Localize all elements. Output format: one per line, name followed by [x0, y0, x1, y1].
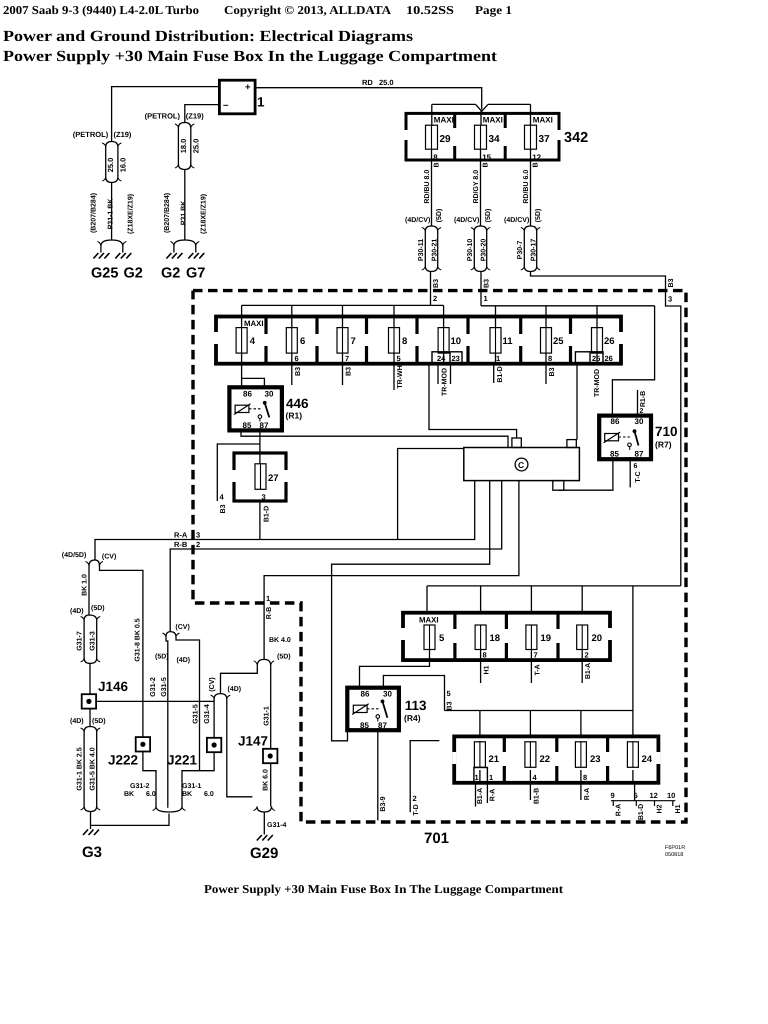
- wire f20 feed: [581, 586, 583, 613]
- pin 5 113: [447, 689, 451, 698]
- svg-text:B3: B3: [220, 504, 227, 513]
- label (5D) 2: [534, 209, 542, 223]
- svg-text:85: 85: [360, 721, 369, 730]
- svg-text:RD/BU 8.0: RD/BU 8.0: [423, 170, 431, 204]
- row2 inner wires: [430, 649, 583, 660]
- svg-text:7: 7: [534, 651, 538, 660]
- svg-text:(R4): (R4): [404, 713, 421, 723]
- pin 2 RB: [196, 540, 200, 549]
- label R1-B: [640, 391, 647, 407]
- svg-text:G31-4: G31-4: [204, 704, 211, 724]
- label (4D) b: [70, 717, 84, 725]
- pin 15 of 342: [482, 153, 491, 162]
- svg-text:86: 86: [243, 390, 252, 399]
- wire bus drop f10: [443, 305, 445, 328]
- wire to J146: [89, 663, 91, 694]
- bus row3 feed: [445, 710, 633, 712]
- label BK 6.0 e: [263, 769, 270, 791]
- fuse 37: [525, 116, 553, 150]
- splice pair fork 0: [422, 226, 441, 231]
- svg-text:2: 2: [413, 794, 417, 803]
- label G31-1 BK 6.0: [182, 783, 214, 798]
- svg-text:P31 BK: P31 BK: [181, 201, 188, 226]
- fuse row3 outline: [452, 736, 660, 782]
- svg-text:710: 710: [655, 424, 678, 439]
- relay 113 coil: [352, 704, 369, 715]
- center box symbol: [515, 458, 528, 471]
- svg-text:MAXI: MAXI: [419, 616, 439, 625]
- svg-text:25: 25: [592, 354, 600, 363]
- wire L4 line: [332, 481, 490, 741]
- label G31-5 c: [161, 677, 168, 697]
- label G31-5 d: [193, 704, 200, 724]
- label (5D) a: [91, 604, 105, 612]
- svg-text:BK: BK: [182, 791, 192, 798]
- wire bus drop f8: [393, 305, 395, 328]
- svg-text:1: 1: [475, 773, 479, 782]
- svg-text:R-A: R-A: [584, 788, 591, 800]
- svg-text:B3: B3: [484, 279, 491, 288]
- svg-text:(R7): (R7): [655, 440, 672, 450]
- center box tab bottom: [553, 481, 564, 491]
- wire T-D: [410, 741, 439, 813]
- svg-text:10.52SS: 10.52SS: [406, 3, 454, 17]
- svg-text:P30-7: P30-7: [517, 241, 524, 260]
- subbox pins 24 23: [432, 352, 462, 364]
- svg-text:B3: B3: [295, 367, 302, 376]
- svg-text:H1: H1: [675, 804, 682, 813]
- wire J222 down: [143, 752, 156, 807]
- wire G3 stem: [90, 812, 92, 830]
- svg-text:2: 2: [585, 651, 589, 660]
- svg-text:G2: G2: [161, 266, 180, 282]
- svg-text:16.0: 16.0: [118, 158, 127, 173]
- svg-text:8: 8: [548, 354, 552, 363]
- stub B3 under fuse7: [342, 364, 344, 385]
- pin 2 TD: [413, 794, 417, 803]
- wire R-A line: [95, 481, 475, 560]
- stub B1-A: [581, 660, 583, 683]
- label B1-D comb: [638, 804, 645, 820]
- wire battery negative to G2/G7 chain: [185, 105, 220, 123]
- svg-text:6: 6: [300, 336, 305, 347]
- label T-C: [635, 471, 642, 482]
- center box tab1: [512, 438, 521, 448]
- svg-text:G31-2: G31-2: [150, 677, 157, 697]
- connector J221: [207, 738, 221, 752]
- fuse 27: [255, 463, 279, 490]
- wire J146 down: [89, 709, 91, 727]
- wire to G25: [100, 246, 102, 253]
- comb line: [611, 800, 675, 802]
- stub B1-D under fuse11: [493, 364, 495, 383]
- pin 4 fuse27: [220, 493, 225, 502]
- wire bus drop f11: [495, 306, 497, 328]
- svg-text:10: 10: [667, 791, 675, 800]
- svg-text:(Z18XE/Z19): (Z18XE/Z19): [127, 194, 135, 234]
- svg-text:342: 342: [564, 130, 588, 146]
- wire fuse27 B1-D down: [259, 501, 261, 540]
- ground G3: [82, 830, 102, 862]
- label T-D: [413, 804, 420, 815]
- svg-text:86: 86: [611, 417, 620, 426]
- wire pair right 0: [437, 231, 439, 266]
- fuse 19 lower: [526, 625, 551, 651]
- stub B3 under fuse6: [291, 364, 293, 385]
- pin 3 dashedbox: [668, 295, 672, 304]
- svg-text:G31-5: G31-5: [161, 677, 168, 697]
- svg-text:B3: B3: [346, 367, 353, 376]
- wire pin2 to left bus: [430, 291, 432, 306]
- label P30-20: [481, 239, 488, 262]
- svg-text:(5D): (5D): [155, 653, 169, 661]
- label MAXI row1: [244, 319, 264, 328]
- wire pin3 jog to box: [531, 272, 666, 291]
- label (5D) 1: [484, 209, 492, 223]
- svg-text:(B207/B284): (B207/B284): [90, 193, 98, 233]
- label G31-4 d: [204, 704, 211, 724]
- subbox pins 25 26: [575, 352, 612, 364]
- cell divider 342 a: [453, 113, 456, 160]
- label G31-2 c: [150, 677, 157, 697]
- pin 2 dashedbox: [433, 294, 437, 303]
- svg-text:G31-5: G31-5: [193, 704, 200, 724]
- relay 710 dashed link: [619, 436, 631, 438]
- wire L5 line: [264, 481, 519, 660]
- left bus row1: [242, 304, 444, 306]
- pin 10 comb: [667, 791, 675, 800]
- svg-text:26: 26: [604, 336, 615, 347]
- pin 3 RA: [196, 531, 200, 540]
- fuse row1 outline: [214, 317, 623, 364]
- pin 6 710: [634, 463, 638, 470]
- svg-text:7: 7: [345, 354, 349, 363]
- svg-text:3: 3: [668, 295, 672, 304]
- svg-text:J221: J221: [167, 753, 198, 768]
- stub R-A 23: [580, 783, 582, 800]
- splice merge right chain: [175, 164, 194, 170]
- fuse 23 row3: [575, 741, 600, 768]
- wire relay113 pin30 up: [383, 676, 444, 711]
- label J147: [238, 734, 268, 749]
- wire CV branch to J222 chain: [100, 566, 143, 737]
- svg-text:B1-A: B1-A: [585, 663, 592, 679]
- label (5D) 0: [435, 209, 443, 223]
- stub T-C under pin87: [629, 447, 632, 488]
- svg-text:G31-8 BK 0.5: G31-8 BK 0.5: [135, 618, 142, 661]
- svg-text:MAXI: MAXI: [244, 319, 264, 328]
- relay 113 pins: [360, 690, 392, 731]
- wire subbox26 to tab2: [576, 364, 578, 440]
- wire pin3 entry: [666, 291, 681, 586]
- wire to G2a: [122, 246, 124, 253]
- svg-text:15: 15: [482, 153, 491, 162]
- wire f24 pin5: [634, 783, 636, 801]
- label 16.0: [118, 158, 127, 173]
- wire 25.0b branch: [190, 128, 192, 164]
- svg-text:27: 27: [268, 473, 279, 484]
- label (R7): [655, 440, 672, 450]
- svg-text:MAXI: MAXI: [434, 116, 454, 125]
- wire bus drop f25: [545, 306, 547, 328]
- svg-text:11: 11: [503, 336, 514, 347]
- svg-text:21: 21: [489, 754, 500, 765]
- svg-text:T-A: T-A: [535, 664, 542, 675]
- svg-text:RD/GY 8.0: RD/GY 8.0: [472, 170, 480, 204]
- svg-text:R-B: R-B: [266, 607, 273, 619]
- svg-text:12: 12: [532, 153, 541, 162]
- connector J147: [263, 749, 277, 763]
- label G31-1 e: [264, 706, 271, 726]
- wire bus drop f6: [291, 305, 293, 328]
- svg-text:–: –: [223, 100, 229, 111]
- splice gauge bracket left chain: [102, 142, 121, 148]
- pin 1 under fuse11: [496, 354, 500, 363]
- row3 dividers: [504, 736, 607, 782]
- svg-text:R-A: R-A: [174, 531, 188, 540]
- battery 1: [219, 80, 265, 114]
- label (Z18XE/Z19) right: [200, 194, 208, 234]
- svg-text:G31-7: G31-7: [77, 631, 84, 651]
- svg-text:P30-21: P30-21: [432, 239, 439, 262]
- svg-text:J147: J147: [238, 734, 268, 749]
- svg-text:C: C: [518, 460, 524, 470]
- svg-text:23: 23: [590, 754, 601, 765]
- wire J147 down: [270, 763, 272, 806]
- svg-text:3: 3: [196, 531, 200, 540]
- wire J221 down: [182, 752, 214, 806]
- label 113: [405, 698, 427, 713]
- svg-text:P30-10: P30-10: [467, 239, 474, 262]
- wire chainC left: [166, 637, 168, 807]
- pin 7 f19: [534, 651, 538, 660]
- svg-text:26: 26: [605, 354, 613, 363]
- svg-text:19: 19: [541, 633, 552, 644]
- wire battery positive to 342: [255, 88, 482, 110]
- ground G2 right: [161, 253, 182, 282]
- svg-text:MAXI: MAXI: [483, 116, 503, 125]
- fork RB2: [254, 659, 274, 665]
- svg-text:B1-D: B1-D: [638, 804, 645, 820]
- wire pin1 to right bus: [480, 291, 482, 306]
- wire f22 feed: [529, 711, 531, 737]
- svg-text:18.0: 18.0: [179, 139, 188, 154]
- fuse 8 row1: [389, 327, 408, 354]
- relay 710 switch: [628, 429, 639, 446]
- relay 710 box: [599, 416, 651, 460]
- svg-text:(5D): (5D): [484, 209, 492, 223]
- label R-B rot: [266, 607, 273, 619]
- fork chainC: [163, 632, 180, 637]
- svg-text:10: 10: [451, 336, 462, 347]
- pin 2 f20: [585, 651, 589, 660]
- fuse 10 row1: [438, 327, 461, 354]
- svg-text:+: +: [245, 82, 251, 93]
- wire 25.0 branch: [105, 147, 107, 177]
- wire G29 stem: [263, 812, 265, 835]
- svg-text:6: 6: [634, 463, 638, 470]
- label B1-D under fuse11: [497, 366, 504, 382]
- label P30-10: [467, 239, 474, 262]
- svg-text:87: 87: [260, 421, 269, 430]
- fuse 5 lower: [424, 625, 445, 651]
- fuse 24 row3: [627, 741, 652, 768]
- label 710: [655, 424, 678, 439]
- fuse 20 lower: [577, 625, 602, 651]
- label G31-8 BK 0.5: [135, 618, 142, 661]
- svg-text:8: 8: [402, 336, 407, 347]
- svg-text:050818: 050818: [665, 852, 683, 858]
- label G31-2 BK 6.0: [124, 783, 156, 798]
- svg-text:1: 1: [484, 294, 488, 303]
- label TR-WH: [397, 365, 404, 388]
- label 25.0 right: [191, 139, 200, 154]
- fuse 4 row1: [236, 327, 256, 354]
- svg-text:(4D): (4D): [177, 656, 191, 664]
- pin 8 under fuse25: [548, 354, 552, 363]
- svg-text:85: 85: [610, 450, 619, 459]
- svg-text:701: 701: [424, 830, 449, 847]
- label R-A comb: [616, 804, 623, 816]
- svg-text:B: B: [434, 162, 441, 167]
- stub B1-B: [529, 783, 531, 800]
- splice pair fork 1: [471, 226, 490, 231]
- label (B207/B284) right: [163, 193, 171, 233]
- label B c: [533, 162, 540, 167]
- svg-text:B1-D: B1-D: [497, 366, 504, 382]
- label (Z18XE/Z19) left: [127, 194, 135, 234]
- relay 446 pins: [243, 390, 274, 431]
- svg-text:8: 8: [433, 153, 438, 162]
- label R-A: [174, 531, 188, 540]
- wire fuse34 down: [480, 149, 482, 226]
- label P30-21: [432, 239, 439, 262]
- svg-text:R-B: R-B: [174, 540, 188, 549]
- label B b: [483, 162, 490, 167]
- label (B207/B284) left: [90, 193, 98, 233]
- svg-text:12: 12: [650, 791, 658, 800]
- bus B3 horizontal: [427, 585, 681, 587]
- wire battery top-left to G25 chain: [112, 87, 220, 142]
- wire maxi5 feed: [426, 586, 428, 613]
- wire relay113 pin87 down: [377, 718, 379, 820]
- center junction box: [464, 448, 580, 481]
- label G31-4 g29: [267, 822, 287, 829]
- svg-text:R-A: R-A: [490, 789, 497, 801]
- svg-text:1: 1: [496, 354, 500, 363]
- ground G29: [250, 835, 278, 862]
- label R-B: [174, 540, 188, 549]
- wire fuse4 to relay446: [241, 364, 243, 388]
- svg-text:5: 5: [439, 633, 445, 644]
- label (4D/CV) 1: [454, 216, 479, 224]
- svg-text:(CV): (CV): [102, 553, 116, 561]
- ground G7: [186, 253, 205, 282]
- svg-text:1: 1: [266, 594, 270, 603]
- wire to G2b: [173, 246, 175, 253]
- svg-text:B1-B: B1-B: [534, 788, 541, 804]
- wire left chain stem: [111, 183, 113, 241]
- svg-text:R1-B: R1-B: [640, 391, 647, 407]
- wire merge line J-chains: [91, 814, 170, 826]
- relay 446 coil: [234, 404, 251, 415]
- wire bus drop f4: [241, 305, 243, 328]
- label BK 1.0: [82, 574, 89, 596]
- label BK 4.0 b: [269, 637, 291, 644]
- relay 446 box: [229, 387, 282, 430]
- label (Z19) left chain: [114, 130, 132, 139]
- label P31 BK: [181, 201, 188, 226]
- fuse 7 row1: [337, 327, 356, 354]
- label RD/BU 8.0: [423, 170, 431, 204]
- wire f23 feed: [580, 711, 582, 737]
- relay 446 switch: [258, 401, 269, 419]
- label J221: [167, 753, 198, 768]
- svg-text:(4D): (4D): [70, 607, 84, 615]
- wire G31-7: [83, 621, 85, 659]
- label G31-1 BK 2.5: [77, 747, 84, 790]
- svg-text:5: 5: [447, 689, 451, 698]
- wire right bus to relay710 pin86: [612, 306, 654, 416]
- wire fuse10 to tab1: [429, 364, 517, 438]
- svg-text:18: 18: [490, 633, 501, 644]
- label T-A: [535, 664, 542, 675]
- svg-text:37: 37: [539, 134, 551, 145]
- comb ticks: [613, 801, 673, 806]
- svg-text:(R1): (R1): [286, 411, 303, 421]
- wire 710 pin85 to center tab: [558, 459, 613, 490]
- svg-text:(4D/5D): (4D/5D): [62, 551, 87, 559]
- stub 23: [450, 364, 452, 384]
- label (5D) b: [92, 717, 106, 725]
- connector J146: [82, 694, 96, 708]
- label RD 25.0: [362, 78, 394, 87]
- wire BK1.0: [88, 566, 90, 615]
- fuse 6 row1: [286, 327, 305, 354]
- stub H1: [480, 660, 482, 683]
- wire relay446 pin85 to center box: [241, 430, 508, 447]
- wire bus drop f7: [342, 305, 344, 328]
- stub TR-WH under fuse8: [393, 364, 395, 390]
- splice gauge bracket right chain: [175, 123, 194, 129]
- label (CV) c: [175, 623, 189, 631]
- svg-text:R-A: R-A: [616, 804, 623, 816]
- splice merge left chain: [102, 177, 121, 183]
- row1 inner wires: [242, 353, 597, 364]
- wire f18 feed: [480, 586, 482, 613]
- merge bracket3: [254, 807, 276, 813]
- svg-text:6.0: 6.0: [146, 791, 156, 798]
- title line 1: [3, 28, 413, 45]
- label B3 pin4: [220, 504, 227, 513]
- bus over 342: [432, 103, 531, 105]
- wire fuse37 down: [530, 149, 532, 226]
- bottom caption: [204, 882, 563, 896]
- stub T-A: [530, 660, 532, 683]
- pin 12 of 342: [532, 153, 541, 162]
- wire relay446 pin87 down: [259, 418, 261, 453]
- svg-text:RD/BU 6.0: RD/BU 6.0: [522, 170, 530, 204]
- svg-text:6.0: 6.0: [204, 791, 214, 798]
- label R-A 21: [490, 789, 497, 801]
- svg-text:(Z18XE/Z19): (Z18XE/Z19): [200, 194, 208, 234]
- label P30-11: [418, 239, 425, 261]
- label B3 under fuse7: [346, 367, 353, 376]
- label P31-1 BK: [108, 199, 115, 230]
- label J222: [108, 753, 138, 768]
- relay 113 switch: [376, 700, 387, 719]
- svg-text:(CV): (CV): [208, 677, 216, 691]
